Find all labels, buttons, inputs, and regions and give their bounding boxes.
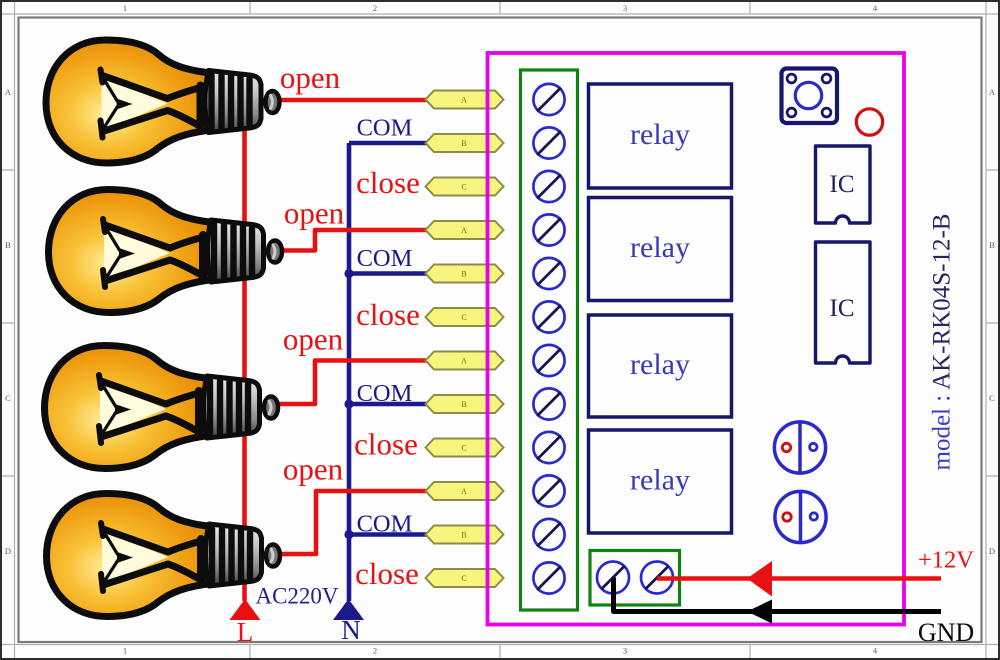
screw terminal 5	[533, 258, 564, 289]
IC U1	[816, 146, 871, 223]
power terminal block J2 (green)	[590, 551, 680, 606]
svg-text:C: C	[461, 313, 466, 322]
terminal lug B row 2	[426, 134, 504, 152]
screw terminal 2	[533, 127, 564, 158]
terminal L (live) arrow	[230, 599, 261, 620]
svg-text:GND: GND	[918, 618, 974, 647]
svg-text:1: 1	[123, 3, 127, 13]
lamp LP1	[46, 40, 280, 163]
terminal lug A row 1	[426, 91, 504, 109]
terminal block J1 (green)	[521, 70, 578, 610]
svg-text:model : AK-RK04S-12-B: model : AK-RK04S-12-B	[929, 214, 956, 471]
svg-text:B: B	[461, 531, 466, 540]
svg-text:close: close	[356, 297, 420, 332]
wire COM 3 (N bus to terminal B3)	[349, 402, 427, 407]
terminal lug A row 4	[426, 221, 504, 239]
screw terminal 9	[533, 432, 564, 463]
lamp LP4	[47, 494, 281, 617]
capacitor C1	[774, 422, 825, 473]
terminal lug A row 7	[426, 352, 504, 370]
screw terminal 12	[533, 562, 564, 593]
screw terminal 10	[533, 475, 564, 506]
svg-text:C: C	[461, 183, 466, 192]
junction on N bus 4	[344, 530, 353, 539]
svg-text:C: C	[461, 444, 466, 453]
screw terminal 8	[533, 388, 564, 419]
relay K2	[589, 198, 732, 301]
svg-text:open: open	[283, 452, 344, 487]
svg-text:A: A	[5, 87, 12, 97]
terminal lug C row 12	[426, 569, 504, 587]
svg-text:A: A	[461, 96, 467, 105]
svg-text:C: C	[989, 393, 995, 403]
svg-text:close: close	[354, 427, 418, 462]
screw terminal 4	[533, 214, 564, 245]
capacitor C2	[775, 491, 826, 542]
svg-text:COM: COM	[357, 380, 413, 407]
svg-text:A: A	[989, 87, 996, 97]
terminal lug C row 3	[426, 178, 504, 196]
arrowhead GND	[747, 600, 772, 624]
terminal lug B row 11	[426, 526, 504, 544]
screw terminal 3	[533, 171, 564, 202]
svg-text:relay: relay	[630, 118, 690, 151]
svg-text:A: A	[461, 487, 467, 496]
wire COM 1 (N bus to terminal B1)	[349, 141, 427, 146]
wire N neutral bus (navy)	[347, 143, 352, 601]
svg-text:D: D	[5, 546, 11, 556]
svg-text:1: 1	[123, 646, 127, 656]
svg-text:2: 2	[373, 646, 377, 656]
svg-text:3: 3	[623, 3, 627, 13]
power screw +	[597, 562, 629, 594]
terminal lug C row 9	[426, 439, 504, 457]
terminal N (neutral) arrow	[333, 599, 364, 620]
wire open 3 (lamp 3 tip to terminal A3)	[264, 361, 427, 405]
svg-text:close: close	[355, 556, 419, 591]
wire open 2 (lamp 2 tip to terminal A2)	[268, 230, 427, 251]
wire GND	[614, 578, 942, 612]
wire L live bus (red)	[242, 124, 247, 601]
svg-text:relay: relay	[630, 348, 690, 381]
wire COM 4 (N bus to terminal B4)	[349, 532, 427, 537]
svg-text:L: L	[237, 617, 254, 647]
svg-text:C: C	[461, 574, 466, 583]
svg-text:COM: COM	[357, 245, 413, 272]
screw terminal 7	[533, 345, 564, 376]
svg-text:B: B	[5, 240, 11, 250]
wire +12V supply	[657, 576, 941, 581]
svg-text:close: close	[356, 165, 420, 200]
svg-text:N: N	[341, 615, 361, 645]
relay K1	[589, 84, 732, 188]
wire open 4 (lamp 4 tip to terminal A4)	[266, 491, 427, 554]
svg-text:A: A	[461, 357, 467, 366]
svg-text:A: A	[461, 226, 467, 235]
svg-text:2: 2	[373, 3, 377, 13]
svg-text:IC: IC	[830, 295, 855, 322]
terminal lug C row 6	[426, 308, 504, 326]
terminal lug B row 8	[426, 395, 504, 413]
svg-text:relay: relay	[630, 464, 690, 497]
wire open 1 (lamp 1 tip to terminal A1)	[266, 98, 427, 103]
push button SW1	[782, 69, 838, 124]
svg-text:relay: relay	[630, 231, 690, 264]
svg-text:B: B	[461, 400, 466, 409]
svg-text:open: open	[283, 322, 344, 357]
relay K4	[589, 430, 732, 533]
svg-text:COM: COM	[357, 511, 413, 538]
svg-text:3: 3	[623, 646, 627, 656]
svg-text:D: D	[989, 546, 995, 556]
screw terminal 6	[533, 301, 564, 332]
screw terminal 11	[533, 519, 564, 550]
wire COM 2 (N bus to terminal B2)	[349, 271, 427, 276]
lamp LP3	[45, 346, 279, 469]
svg-text:open: open	[280, 60, 341, 95]
svg-text:IC: IC	[830, 171, 855, 198]
svg-text:COM: COM	[357, 115, 413, 142]
junction on N bus 3	[344, 399, 353, 408]
relay K3	[589, 315, 732, 417]
svg-text:+12V: +12V	[918, 547, 974, 574]
power screw -	[641, 562, 673, 594]
terminal lug B row 5	[426, 265, 504, 283]
svg-text:C: C	[5, 393, 11, 403]
svg-text:B: B	[461, 270, 466, 279]
PCB board outline (magenta)	[488, 53, 905, 625]
IC U2	[816, 242, 871, 363]
junction on N bus 2	[344, 269, 353, 278]
svg-text:open: open	[284, 196, 345, 231]
screw terminal 1	[533, 84, 564, 115]
arrowhead +12V	[747, 561, 772, 597]
terminal lug A row 10	[426, 482, 504, 500]
svg-text:B: B	[989, 240, 995, 250]
indicator LED D1	[856, 109, 882, 135]
lamp LP2	[49, 190, 283, 313]
svg-text:B: B	[461, 139, 466, 148]
svg-text:AC220V: AC220V	[255, 584, 338, 609]
